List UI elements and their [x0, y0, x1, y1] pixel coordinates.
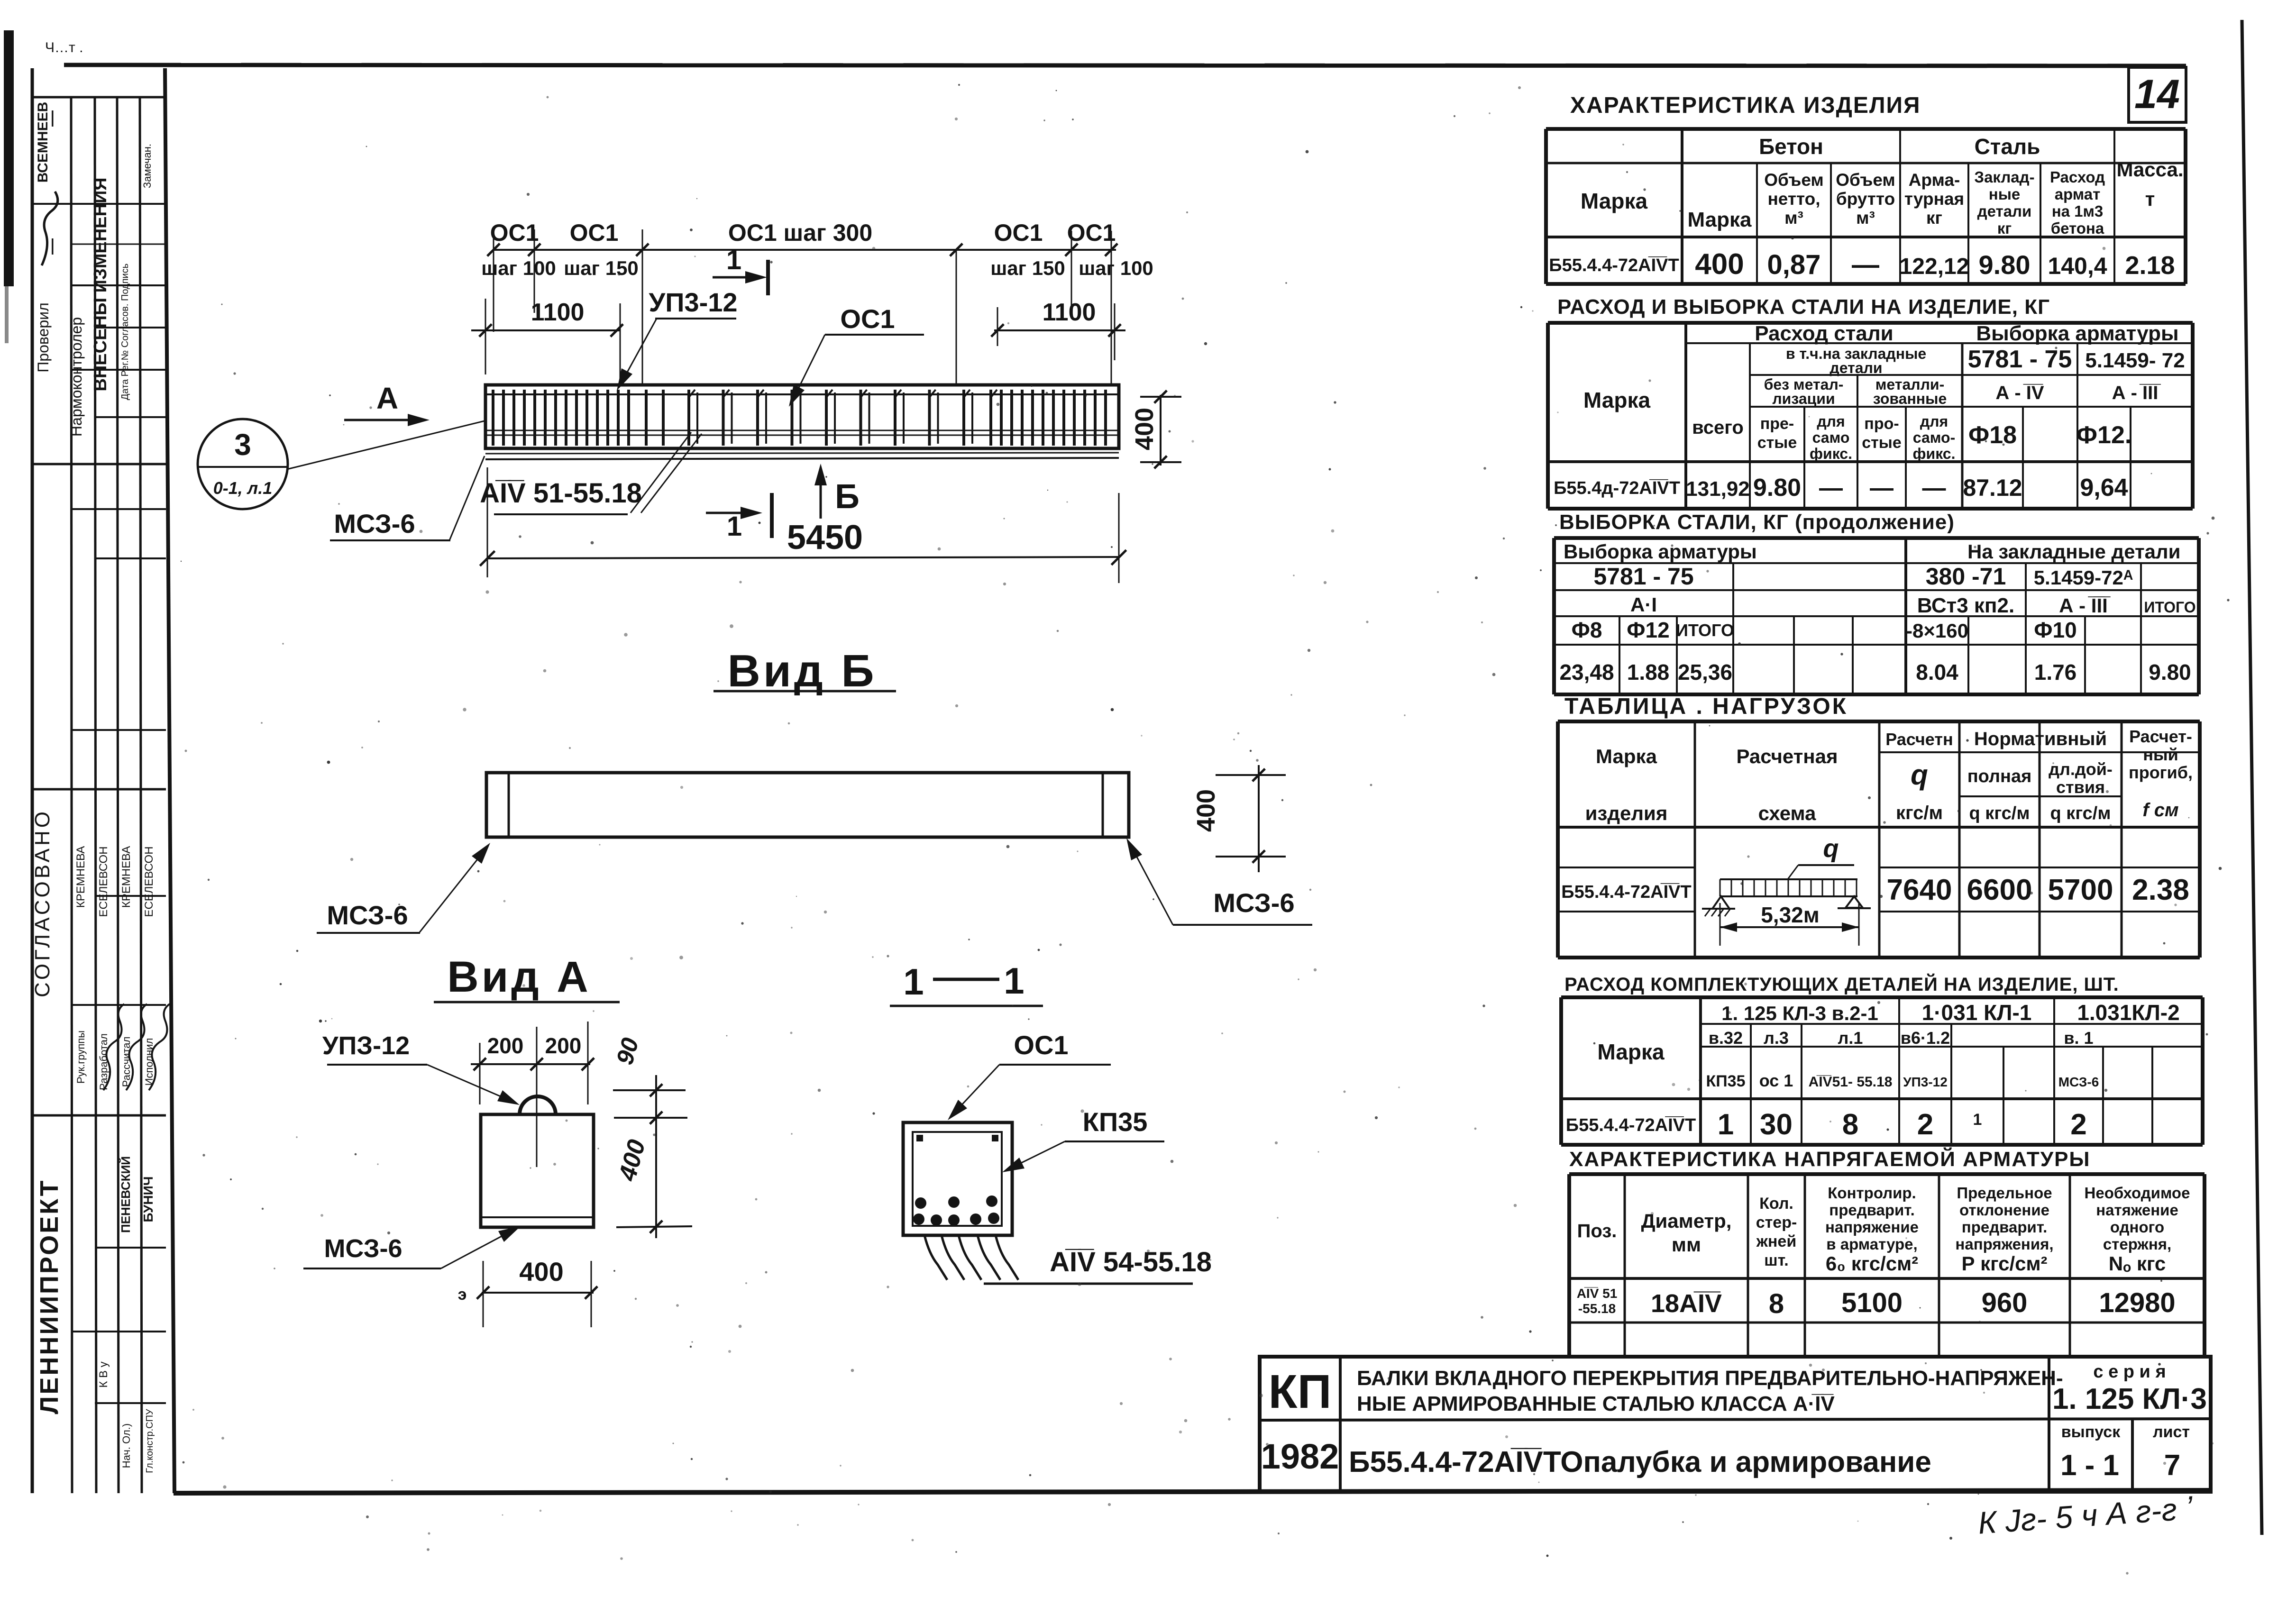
svg-text:-55.18: -55.18 [1578, 1301, 1616, 1316]
svg-text:1: 1 [1004, 960, 1024, 1002]
svg-text:87.12: 87.12 [1963, 474, 2022, 501]
svg-text:Вид А: Вид А [447, 953, 591, 1001]
svg-text:АI̅V̅ 51-55.18: АI̅V̅ 51-55.18 [480, 478, 642, 509]
leader circle3 to beam end [287, 421, 485, 469]
Вид А dim 400 bottom [482, 1292, 594, 1294]
svg-text:МСЗ-6: МСЗ-6 [1213, 888, 1294, 918]
beam elevation: strand lines [485, 430, 1119, 431]
svg-text:в6·1.2: в6·1.2 [1901, 1028, 1950, 1048]
svg-text:5700: 5700 [2048, 874, 2113, 906]
svg-text:РАСХОД КОМПЛЕКТУЮЩИХ ДЕТАЛЕЙ Н: РАСХОД КОМПЛЕКТУЮЩИХ ДЕТАЛЕЙ НА ИЗДЕЛИЕ,… [1564, 973, 2119, 995]
svg-text:л.3: л.3 [1764, 1028, 1789, 1048]
svg-text:Ф8: Ф8 [1572, 618, 1602, 642]
svg-text:—: — [1852, 249, 1879, 280]
scheme supports [1712, 896, 1729, 909]
Вид Б bearing plate lines [508, 773, 510, 837]
svg-text:Расход стали: Расход стали [1755, 322, 1893, 345]
svg-text:Ф12: Ф12 [1627, 618, 1669, 642]
svg-text:УПЗ-12: УПЗ-12 [322, 1031, 410, 1060]
table 5: расход комплектующих grid [1561, 995, 2203, 999]
svg-text:1.76: 1.76 [2034, 660, 2077, 684]
svg-text:кгс/м: кгс/м [1896, 803, 1943, 823]
Вид А dim 90 and 400 vertical [655, 1075, 657, 1238]
Вид А square outline [481, 1114, 594, 1227]
svg-text:прогиб,: прогиб, [2129, 763, 2193, 782]
sheet bottom border line [174, 1490, 2211, 1493]
svg-text:q кгс/м: q кгс/м [2050, 803, 2111, 823]
svg-text:ОС1: ОС1 [840, 304, 895, 334]
svg-text:само: само [1812, 429, 1850, 446]
svg-text:шаг 100: шаг 100 [481, 257, 556, 279]
svg-text:2.38: 2.38 [2132, 874, 2189, 906]
svg-text:1100: 1100 [531, 299, 585, 326]
svg-text:АI̅V̅ 51: АI̅V̅ 51 [1577, 1286, 1618, 1301]
svg-text:Сталь: Сталь [1975, 134, 2040, 159]
svg-text:18АI̅V̅: 18АI̅V̅ [1651, 1289, 1722, 1318]
beam elevation: bottom plate lines [485, 453, 1119, 454]
stamp rotated signatures [103, 1004, 124, 1090]
svg-text:БАЛКИ ВКЛАДНОГО ПЕРЕКРЫТИЯ: БАЛКИ ВКЛАДНОГО ПЕРЕКРЫТИЯ ПРЕДВАРИТЕЛЬН… [1357, 1367, 2063, 1390]
svg-text:ИТОГО: ИТОГО [1676, 620, 1734, 640]
svg-text:жней: жней [1756, 1232, 1796, 1250]
svg-text:КП35: КП35 [1706, 1072, 1745, 1090]
svg-text:КРЕМНЕВА: КРЕМНЕВА [74, 846, 87, 908]
svg-text:брутто: брутто [1836, 189, 1895, 209]
dim 1100 left [471, 329, 620, 331]
svg-text:Поз.: Поз. [1577, 1221, 1617, 1241]
svg-text:ТАБЛИЦА . НАГРУЗОК: ТАБЛИЦА . НАГРУЗОК [1564, 694, 1848, 719]
svg-text:0,87: 0,87 [1767, 249, 1821, 280]
svg-text:Расчетн: Расчетн [1885, 730, 1953, 749]
svg-text:отклонение: отклонение [1959, 1201, 2049, 1219]
svg-text:1: 1 [726, 245, 741, 275]
svg-text:выпуск: выпуск [2061, 1423, 2121, 1441]
svg-text:1.88: 1.88 [1627, 660, 1670, 684]
svg-text:Рассчитал: Рассчитал [120, 1037, 132, 1087]
svg-text:пре-: пре- [1760, 415, 1794, 433]
svg-text:НЫЕ АРМИРОВАННЫЕ СТАЛЬЮ: НЫЕ АРМИРОВАННЫЕ СТАЛЬЮ КЛАССА А·I̅V̅ [1357, 1392, 1835, 1415]
svg-text:м³: м³ [1856, 208, 1875, 228]
svg-text:в.32: в.32 [1709, 1028, 1743, 1048]
svg-text:8: 8 [1769, 1288, 1784, 1319]
svg-text:5781 - 75: 5781 - 75 [1968, 346, 2072, 373]
svg-text:2.18: 2.18 [2125, 251, 2175, 280]
svg-text:Б55.4.4-72АI̅V̅Т: Б55.4.4-72АI̅V̅Т [1566, 1115, 1696, 1135]
svg-text:Дата Рег.№ Согласов. Подпись: Дата Рег.№ Согласов. Подпись [120, 264, 130, 400]
svg-text:5,32м: 5,32м [1761, 903, 1820, 927]
table 4 calc scheme diagram [1720, 878, 1857, 880]
svg-text:25,36: 25,36 [1678, 660, 1732, 684]
svg-text:стые: стые [1862, 434, 1902, 452]
svg-text:напряжения,: напряжения, [1955, 1235, 2053, 1253]
svg-text:1100: 1100 [1043, 299, 1096, 326]
beam elevation: outline [485, 385, 1119, 448]
svg-text:нетто,: нетто, [1767, 189, 1820, 209]
svg-text:Б55.4.4-72АI̅V̅Т: Б55.4.4-72АI̅V̅Т [1549, 255, 1679, 275]
table 2: расход и выборка стали grid [1548, 321, 2193, 325]
svg-text:КРЕМНЕВА: КРЕМНЕВА [120, 846, 133, 908]
svg-text:90: 90 [611, 1035, 644, 1067]
svg-text:в. 1: в. 1 [2064, 1028, 2093, 1048]
svg-text:q кгс/м: q кгс/м [1969, 803, 2030, 823]
svg-text:Р кгс/см²: Р кгс/см² [1961, 1252, 2047, 1275]
svg-text:1: 1 [903, 961, 924, 1003]
svg-text:200: 200 [545, 1033, 582, 1058]
sheet top border line [64, 65, 2186, 66]
svg-text:8: 8 [1842, 1108, 1858, 1141]
svg-text:ПЕНЕВСКИЙ: ПЕНЕВСКИЙ [119, 1156, 133, 1233]
svg-text:Объем: Объем [1764, 170, 1824, 190]
svg-text:—: — [43, 110, 61, 127]
svg-text:6600: 6600 [1967, 874, 2032, 906]
svg-text:Необходимое: Необходимое [2085, 1184, 2190, 1202]
svg-text:ОС1: ОС1 [570, 219, 619, 246]
svg-text:АI̅V̅ 54-55.18: АI̅V̅ 54-55.18 [1050, 1247, 1212, 1277]
svg-text:мм: мм [1672, 1233, 1701, 1256]
section mark 1 (top) [713, 276, 758, 279]
svg-text:армат: армат [2055, 185, 2101, 203]
svg-text:Расчет-: Расчет- [2129, 727, 2192, 746]
svg-text:131,92: 131,92 [1686, 477, 1750, 501]
svg-text:7: 7 [2164, 1449, 2180, 1482]
svg-text:1: 1 [1718, 1108, 1734, 1141]
svg-text:Марка: Марка [1596, 745, 1657, 767]
title block row divider [1260, 1419, 2211, 1420]
svg-text:лизации: лизации [1772, 390, 1835, 407]
left stamp block grid [31, 68, 34, 1493]
svg-text:предварит.: предварит. [1962, 1218, 2047, 1236]
svg-text:напряжение: напряжение [1825, 1218, 1919, 1236]
svg-text:детали: детали [1829, 359, 1882, 376]
stamp signature squiggle col1 [42, 192, 58, 265]
svg-text:КП35: КП35 [1083, 1107, 1148, 1137]
svg-text:Nₒ кгс: Nₒ кгс [2109, 1252, 2166, 1275]
svg-text:5450: 5450 [787, 519, 863, 557]
svg-text:КП: КП [1269, 1365, 1332, 1418]
svg-text:ос 1: ос 1 [1759, 1071, 1793, 1090]
svg-text:про-: про- [1864, 415, 1899, 433]
section 1-1 corner bar dots [916, 1135, 923, 1141]
svg-text:А: А [376, 381, 398, 415]
svg-text:1982: 1982 [1261, 1437, 1339, 1476]
svg-text:бетона: бетона [2051, 219, 2104, 237]
svg-text:ОС1: ОС1 [994, 219, 1043, 246]
svg-text:К Јг- 5 ч А г-г ʼ: К Јг- 5 ч А г-г ʼ [1977, 1490, 2195, 1541]
scan speckles [1489, 112, 1491, 114]
svg-text:в арматуре,: в арматуре, [1826, 1235, 1917, 1253]
svg-text:9.80: 9.80 [2149, 660, 2191, 684]
svg-text:предварит.: предварит. [1829, 1201, 1914, 1219]
sheet right border line (skewed) [2242, 20, 2262, 1535]
beam elevation: top longitudinal bar line [485, 393, 1119, 395]
svg-text:изделия: изделия [1585, 802, 1668, 824]
svg-text:1. 125 КЛ-3 в.2-1: 1. 125 КЛ-3 в.2-1 [1721, 1002, 1878, 1024]
svg-text:ИТОГО: ИТОГО [2144, 599, 2195, 616]
svg-text:Объем: Объем [1836, 170, 1895, 190]
svg-text:380 -71: 380 -71 [1926, 563, 2006, 590]
section 1-1 prestress strands exiting [924, 1235, 947, 1280]
svg-text:Контролир.: Контролир. [1828, 1184, 1916, 1202]
title block выпуск/лист divider [2131, 1419, 2134, 1492]
svg-text:Исполнил: Исполнил [143, 1038, 155, 1086]
svg-text:122,12: 122,12 [1900, 254, 1969, 279]
svg-text:шт.: шт. [1764, 1251, 1788, 1269]
Вид А center axis [536, 1027, 538, 1167]
dim chain OC1 spacing line [494, 249, 1116, 251]
svg-text:Предельное: Предельное [1957, 1184, 2052, 1202]
svg-text:Выборка арматуры: Выборка арматуры [1976, 322, 2178, 345]
section mark 1 (bottom) [706, 512, 753, 514]
svg-text:3: 3 [234, 428, 251, 462]
svg-text:ВСт3 кп2.: ВСт3 кп2. [1917, 594, 2014, 617]
svg-text:400: 400 [1192, 789, 1220, 832]
svg-text:На закладные детали: На закладные детали [1967, 540, 2180, 563]
svg-text:23,48: 23,48 [1559, 660, 1614, 684]
svg-text:Выборка арматуры: Выборка арматуры [1564, 540, 1757, 563]
svg-text:А - I̅V̅: А - I̅V̅ [1995, 383, 2044, 403]
section 1-1 stirrup КП35 inner square [913, 1132, 1002, 1226]
section 1-1 strand dots [915, 1197, 926, 1209]
svg-text:ные: ные [1989, 185, 2020, 203]
svg-text:стержня,: стержня, [2103, 1235, 2171, 1253]
svg-text:Бетон: Бетон [1759, 134, 1823, 159]
svg-text:АI̅V̅51- 55.18: АI̅V̅51- 55.18 [1809, 1074, 1893, 1090]
svg-text:Нач. Ол.): Нач. Ол.) [120, 1423, 132, 1468]
detail circle 3 / 0-1,л.1 [198, 419, 288, 509]
svg-text:МСЗ-6: МСЗ-6 [334, 509, 415, 538]
svg-text:Нормативный: Нормативный [1974, 729, 2107, 749]
svg-text:400: 400 [1130, 408, 1159, 450]
Вид А dim 200 200 [471, 1063, 590, 1065]
svg-text:Марка: Марка [1597, 1040, 1665, 1064]
svg-text:—: — [1922, 474, 1946, 501]
svg-text:ОС1: ОС1 [490, 219, 539, 246]
svg-text:ВЫБОРКА СТАЛИ, КГ (продолжение: ВЫБОРКА СТАЛИ, КГ (продолжение) [1559, 511, 1955, 534]
title block серия box left edge [2048, 1357, 2050, 1492]
svg-text:Расход: Расход [2050, 168, 2105, 186]
dim 1100 right [994, 329, 1125, 331]
svg-text:УП3-12: УП3-12 [1903, 1075, 1948, 1089]
svg-text:натяжение: натяжение [2096, 1201, 2178, 1219]
svg-text:А·I: А·I [1630, 593, 1657, 616]
svg-text:шаг 150: шаг 150 [990, 257, 1065, 279]
svg-text:для: для [1817, 413, 1845, 430]
svg-text:1: 1 [1973, 1111, 1982, 1129]
svg-text:Заклад-: Заклад- [1974, 168, 2034, 186]
beam elevation: stirrups OC1 [492, 390, 494, 446]
svg-text:Ф18: Ф18 [1968, 421, 2017, 449]
svg-text:ОС1: ОС1 [1014, 1030, 1068, 1060]
svg-text:с е р и я: с е р и я [2093, 1362, 2166, 1382]
svg-text:дл.дой-: дл.дой- [2049, 759, 2113, 779]
svg-text:5100: 5100 [1841, 1287, 1903, 1318]
svg-text:зованные: зованные [1873, 390, 1947, 407]
Вид Б dim 400 [1258, 765, 1260, 872]
svg-text:—: — [43, 238, 61, 255]
svg-text:7640: 7640 [1887, 874, 1952, 906]
svg-text:Проверил: Проверил [35, 302, 52, 372]
svg-text:одного: одного [2110, 1218, 2164, 1236]
svg-text:Кол.: Кол. [1759, 1195, 1793, 1213]
svg-text:Б: Б [835, 478, 860, 516]
svg-text:1·031 КЛ-1: 1·031 КЛ-1 [1922, 1000, 2032, 1025]
title block outline [1260, 1357, 2211, 1492]
svg-text:9,64: 9,64 [2080, 474, 2128, 502]
svg-text:А - I̅I̅I̅: А - I̅I̅I̅ [2059, 594, 2111, 617]
svg-text:СОГЛАСОВАНО: СОГЛАСОВАНО [31, 809, 54, 997]
svg-text:МСЗ-6: МСЗ-6 [2058, 1075, 2099, 1089]
Вид А bottom plate line [481, 1216, 594, 1218]
dim 400 (elevation right) [1160, 395, 1162, 465]
svg-text:140,4: 140,4 [2048, 253, 2107, 279]
svg-text:Ф10: Ф10 [2034, 618, 2076, 642]
svg-text:Замечан.: Замечан. [141, 144, 153, 188]
svg-text:Вид Б: Вид Б [728, 646, 877, 696]
svg-text:Разработал: Разработал [98, 1033, 110, 1090]
svg-text:на 1м3: на 1м3 [2052, 202, 2104, 220]
svg-text:30: 30 [1760, 1108, 1793, 1141]
svg-text:т: т [2145, 188, 2155, 210]
svg-text:0-1, л.1: 0-1, л.1 [213, 478, 272, 498]
svg-text:фикс.: фикс. [1810, 445, 1852, 462]
svg-text:Масса.: Масса. [2116, 158, 2183, 181]
svg-text:5.1459- 72: 5.1459- 72 [2085, 349, 2185, 372]
svg-text:ный: ный [2143, 745, 2178, 764]
svg-text:8.04: 8.04 [1916, 660, 1958, 684]
svg-text:ХАРАКТЕРИСТИКА ИЗДЕЛИЯ: ХАРАКТЕРИСТИКА ИЗДЕЛИЯ [1570, 93, 1921, 118]
svg-text:стые: стые [1757, 434, 1797, 452]
svg-text:5781 - 75: 5781 - 75 [1593, 563, 1693, 590]
svg-text:2: 2 [1917, 1108, 1933, 1141]
svg-text:Нармоконтролер: Нармоконтролер [68, 317, 85, 437]
svg-text:400: 400 [1695, 248, 1744, 281]
svg-text:ЕСЕЛЕВСОН: ЕСЕЛЕВСОН [143, 846, 156, 917]
svg-text:Ч…т .: Ч…т . [45, 40, 83, 55]
svg-text:шаг 150: шаг 150 [564, 257, 639, 279]
title block КП/1982 divider [1339, 1357, 1342, 1492]
svg-text:полная: полная [1967, 766, 2032, 786]
svg-text:Б55.4.4-72АI̅V̅Т: Б55.4.4-72АI̅V̅Т [1561, 882, 1691, 902]
view arrow Б [820, 473, 822, 519]
svg-text:9.80: 9.80 [1979, 250, 2031, 280]
svg-text:всего: всего [1692, 417, 1744, 438]
svg-text:УП3-12: УП3-12 [649, 287, 737, 317]
dim 5450 [487, 557, 1119, 558]
svg-text:э: э [458, 1286, 467, 1304]
svg-text:2: 2 [2070, 1108, 2086, 1141]
svg-text:А - I̅I̅I̅: А - I̅I̅I̅ [2112, 383, 2161, 403]
svg-text:фикс.: фикс. [1913, 445, 1956, 462]
svg-text:К В у: К В у [97, 1361, 110, 1387]
svg-text:для: для [1920, 413, 1948, 430]
Вид Б beam outline [486, 773, 1129, 837]
svg-text:кг: кг [1997, 219, 2012, 237]
scheme dim 5,32м [1720, 926, 1859, 928]
svg-text:ЛЕННИИПРОЕКТ: ЛЕННИИПРОЕКТ [35, 1179, 64, 1414]
svg-text:схема: схема [1758, 802, 1816, 824]
section 1-1 outer square [903, 1122, 1012, 1235]
table 3: выборка стали grid [1554, 536, 2199, 540]
dim chain extension lines [493, 229, 494, 332]
svg-text:1: 1 [727, 511, 742, 542]
svg-text:960: 960 [1982, 1287, 2028, 1318]
svg-text:Марка: Марка [1687, 208, 1752, 231]
svg-text:5.1459-72ᴬ: 5.1459-72ᴬ [2034, 566, 2133, 589]
table 6: характеристика напрягаемой арматуры grid [1569, 1172, 2205, 1176]
svg-text:л.1: л.1 [1838, 1028, 1863, 1048]
svg-text:q: q [1823, 834, 1839, 863]
svg-text:—: — [1819, 474, 1843, 501]
svg-text:200: 200 [487, 1033, 524, 1058]
svg-text:1 - 1: 1 - 1 [2060, 1449, 2119, 1482]
svg-text:400: 400 [613, 1137, 651, 1184]
svg-text:1.031КЛ-2: 1.031КЛ-2 [2077, 1000, 2179, 1025]
svg-text:Марка: Марка [1581, 189, 1648, 213]
svg-text:лист: лист [2153, 1423, 2190, 1441]
svg-text:само-: само- [1913, 429, 1955, 446]
svg-text:Арма-: Арма- [1909, 170, 1960, 190]
svg-text:ХАРАКТЕРИСТИКА НАПРЯГАЕМОЙ АРМ: ХАРАКТЕРИСТИКА НАПРЯГАЕМОЙ АРМАТУРЫ [1569, 1147, 2091, 1171]
table 4: таблица нагрузок grid [1558, 720, 2200, 723]
svg-text:ЕСЕЛЕВСОН: ЕСЕЛЕВСОН [97, 846, 110, 917]
svg-text:Марка: Марка [1583, 388, 1651, 412]
svg-text:МСЗ-6: МСЗ-6 [324, 1234, 402, 1263]
svg-text:400: 400 [519, 1257, 563, 1286]
svg-text:ствия: ствия [2056, 777, 2105, 797]
svg-text:9.80: 9.80 [1753, 474, 1801, 502]
scanner edge black bar left [4, 30, 14, 286]
Вид А lifting loop УП3-12 [520, 1096, 556, 1114]
svg-text:Гл.констр.СПУ: Гл.констр.СПУ [145, 1409, 155, 1473]
svg-text:БУНИЧ: БУНИЧ [141, 1177, 156, 1223]
svg-text:14: 14 [2134, 72, 2180, 117]
svg-text:Б55.4.4-72АI̅V̅ТОпалубка и: Б55.4.4-72АI̅V̅ТОпалубка и армирование [1349, 1446, 1931, 1478]
svg-text:ОС1: ОС1 [1067, 219, 1116, 246]
svg-text:Расчетная: Расчетная [1736, 745, 1838, 767]
svg-text:турная: турная [1904, 189, 1964, 209]
svg-text:кг: кг [1926, 208, 1942, 228]
svg-text:1. 125 КЛ·3: 1. 125 КЛ·3 [2052, 1383, 2207, 1415]
svg-text:стер-: стер- [1756, 1213, 1797, 1232]
dim chain tick marks [487, 244, 500, 256]
svg-text:Рук.группы: Рук.группы [75, 1031, 87, 1084]
svg-text:-8×160: -8×160 [1906, 620, 1968, 642]
svg-text:м³: м³ [1784, 208, 1803, 228]
svg-text:Ф12.: Ф12. [2076, 421, 2132, 449]
svg-text:f см: f см [2142, 800, 2178, 821]
svg-text:6₀ кгс/см²: 6₀ кгс/см² [1826, 1252, 1918, 1275]
svg-text:Б55.4д-72АI̅V̅Т: Б55.4д-72АI̅V̅Т [1554, 478, 1680, 498]
svg-text:детали: детали [1977, 202, 2032, 220]
svg-text:q: q [1911, 759, 1928, 791]
svg-text:—: — [1870, 474, 1894, 501]
svg-text:шаг 100: шаг 100 [1079, 257, 1153, 279]
svg-text:12980: 12980 [2099, 1287, 2175, 1318]
svg-text:МСЗ-6: МСЗ-6 [327, 900, 408, 930]
svg-text:РАСХОД И ВЫБОРКА СТАЛИ НА ИЗДЕ: РАСХОД И ВЫБОРКА СТАЛИ НА ИЗДЕЛИЕ, КГ [1557, 295, 2050, 319]
page number box 14 [2129, 67, 2186, 122]
svg-text:ВНЕСЕНЫ ИЗМЕНЕНИЯ: ВНЕСЕНЫ ИЗМЕНЕНИЯ [91, 177, 110, 391]
svg-text:ОС1 шаг 300: ОС1 шаг 300 [728, 219, 872, 246]
table 1: характеристика изделия grid [1546, 127, 2186, 131]
